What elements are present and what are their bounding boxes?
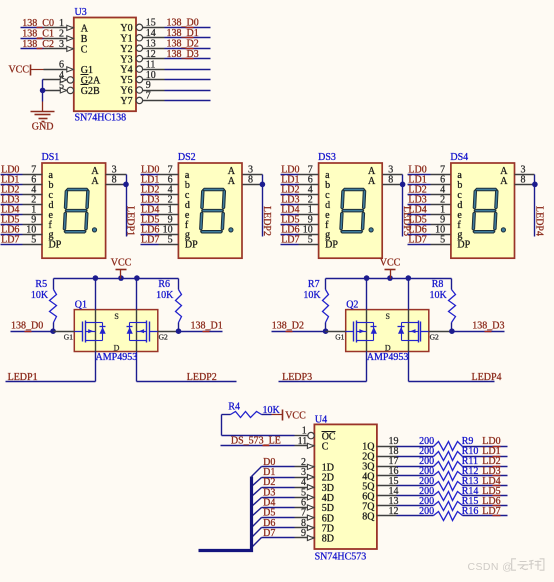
- svg-text:138_D2: 138_D2: [167, 38, 199, 49]
- svg-text:Y2: Y2: [120, 44, 132, 55]
- svg-text:10K: 10K: [156, 290, 174, 301]
- svg-text:5: 5: [168, 234, 173, 245]
- svg-text:DS1: DS1: [42, 152, 60, 163]
- svg-text:13: 13: [146, 38, 156, 49]
- svg-text:B: B: [81, 34, 88, 45]
- svg-text:5: 5: [440, 234, 445, 245]
- svg-text:8: 8: [248, 175, 253, 186]
- svg-text:AMP4953: AMP4953: [367, 352, 409, 363]
- svg-text:10K: 10K: [31, 290, 49, 301]
- svg-text:SN74HC573: SN74HC573: [315, 552, 367, 563]
- svg-text:138_D2: 138_D2: [272, 321, 304, 332]
- svg-text:R7: R7: [308, 279, 320, 290]
- svg-text:A: A: [91, 176, 99, 187]
- svg-text:A: A: [500, 176, 508, 187]
- svg-text:G2B: G2B: [81, 86, 100, 97]
- svg-text:R8: R8: [432, 279, 444, 290]
- svg-text:VCC: VCC: [380, 258, 401, 269]
- svg-text:9: 9: [146, 80, 151, 91]
- svg-text:12: 12: [389, 506, 399, 517]
- svg-text:S: S: [386, 312, 390, 321]
- svg-text:Q2: Q2: [346, 300, 358, 311]
- svg-text:Y5: Y5: [120, 75, 132, 86]
- svg-text:15: 15: [146, 18, 156, 29]
- svg-text:D7: D7: [263, 528, 275, 539]
- svg-text:AMP4953: AMP4953: [96, 352, 138, 363]
- svg-text:5: 5: [31, 234, 36, 245]
- svg-text:A: A: [228, 176, 236, 187]
- svg-text:200: 200: [419, 506, 434, 517]
- svg-text:DP: DP: [325, 240, 338, 251]
- svg-text:10: 10: [146, 70, 156, 81]
- svg-text:LEDP4: LEDP4: [472, 372, 502, 383]
- svg-text:S: S: [114, 312, 118, 321]
- svg-text:9: 9: [301, 528, 306, 539]
- svg-text:DS2: DS2: [178, 152, 196, 163]
- svg-text:3: 3: [59, 39, 64, 50]
- svg-text:R6: R6: [158, 279, 170, 290]
- svg-text:LEDP4: LEDP4: [533, 206, 544, 236]
- svg-text:8: 8: [388, 175, 393, 186]
- svg-text:VCC: VCC: [8, 64, 29, 75]
- svg-text:LEDP1: LEDP1: [125, 206, 136, 236]
- svg-text:CSDN @: CSDN @: [468, 561, 514, 573]
- svg-text:10K: 10K: [429, 290, 447, 301]
- svg-text:DP: DP: [49, 240, 62, 251]
- svg-text:C: C: [322, 441, 329, 452]
- svg-text:Y4: Y4: [120, 65, 132, 76]
- svg-text:138_D1: 138_D1: [167, 28, 199, 39]
- svg-text:A: A: [81, 24, 89, 35]
- svg-text:LEDP2: LEDP2: [261, 206, 272, 236]
- svg-text:2: 2: [59, 29, 64, 40]
- svg-text:G1: G1: [64, 333, 73, 342]
- svg-text:U3: U3: [75, 7, 87, 18]
- svg-text:7: 7: [146, 91, 151, 102]
- svg-text:G2: G2: [430, 333, 439, 342]
- svg-text:5: 5: [308, 234, 313, 245]
- svg-text:DS4: DS4: [450, 152, 468, 163]
- svg-text:VCC: VCC: [285, 411, 306, 422]
- svg-text:138_D1: 138_D1: [191, 321, 223, 332]
- svg-text:10K: 10K: [303, 290, 321, 301]
- svg-text:5: 5: [59, 81, 64, 92]
- svg-text:U4: U4: [315, 414, 327, 425]
- svg-text:C: C: [81, 45, 88, 56]
- svg-text:LD7: LD7: [1, 234, 19, 245]
- svg-text:14: 14: [146, 28, 156, 39]
- svg-text:A: A: [368, 176, 376, 187]
- svg-text:138_D3: 138_D3: [167, 49, 199, 60]
- svg-text:8: 8: [521, 175, 526, 186]
- svg-text:VCC: VCC: [111, 258, 132, 269]
- svg-text:LEDP1: LEDP1: [8, 372, 38, 383]
- svg-text:LD7: LD7: [141, 234, 159, 245]
- svg-text:138_D0: 138_D0: [11, 321, 43, 332]
- svg-text:Y0: Y0: [120, 23, 132, 34]
- svg-text:Y7: Y7: [120, 96, 132, 107]
- svg-text:DS_573_LE: DS_573_LE: [231, 436, 281, 447]
- svg-text:LEDP3: LEDP3: [282, 372, 312, 383]
- svg-text:12: 12: [146, 49, 156, 60]
- svg-text:Y6: Y6: [120, 86, 132, 97]
- svg-text:SN74HC138: SN74HC138: [75, 113, 127, 124]
- svg-text:138_D3: 138_D3: [472, 321, 504, 332]
- svg-text:LD7: LD7: [281, 234, 299, 245]
- svg-text:R4: R4: [228, 401, 240, 412]
- svg-text:Q1: Q1: [75, 300, 87, 311]
- svg-text:138_D0: 138_D0: [167, 18, 199, 29]
- svg-text:Y3: Y3: [120, 54, 132, 65]
- svg-text:11: 11: [146, 59, 156, 70]
- svg-text:6: 6: [59, 60, 64, 71]
- svg-text:R16: R16: [462, 506, 479, 517]
- svg-text:DP: DP: [185, 240, 198, 251]
- svg-text:LD7: LD7: [408, 234, 426, 245]
- svg-text:8Q: 8Q: [362, 511, 375, 522]
- svg-text:R5: R5: [35, 279, 47, 290]
- svg-text:DS3: DS3: [318, 152, 336, 163]
- svg-text:Y1: Y1: [120, 33, 132, 44]
- svg-text:11: 11: [298, 436, 308, 447]
- svg-text:8: 8: [112, 175, 117, 186]
- svg-text:G2: G2: [159, 333, 168, 342]
- svg-text:8D: 8D: [322, 534, 334, 545]
- svg-text:1: 1: [59, 18, 64, 29]
- svg-text:G1: G1: [335, 333, 344, 342]
- svg-text:DP: DP: [457, 240, 470, 251]
- svg-text:GND: GND: [32, 121, 54, 132]
- svg-text:4: 4: [59, 70, 64, 81]
- svg-text:LEDP2: LEDP2: [187, 372, 217, 383]
